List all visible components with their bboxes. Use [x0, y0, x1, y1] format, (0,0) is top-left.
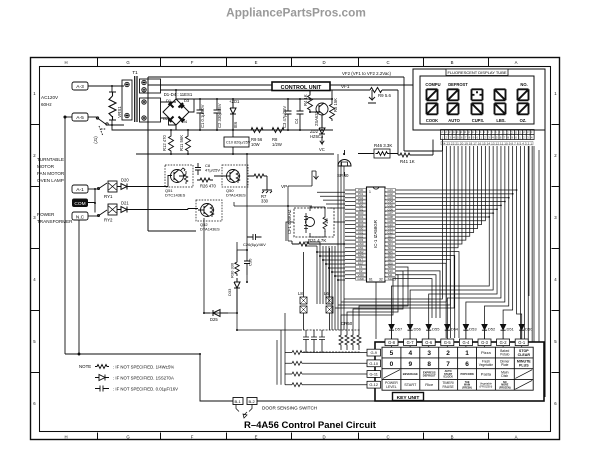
svg-text:AUTO: AUTO: [448, 118, 460, 123]
svg-text:3: 3: [427, 350, 431, 357]
svg-text:C30: C30: [248, 258, 253, 266]
capacitor C10 820u/25V box: [224, 137, 249, 147]
wire COM to relays: [88, 189, 95, 213]
capacitor C26 6u/46V: [247, 234, 262, 240]
transistor Q2 2SA633: [316, 103, 328, 115]
diodes D57-D50: [389, 325, 524, 330]
svg-text:LBS.: LBS.: [496, 118, 505, 123]
svg-text:G-8: G-8: [388, 340, 396, 345]
wire D20 to Q51: [133, 176, 172, 187]
svg-text:9: 9: [408, 361, 412, 368]
svg-text:10W: 10W: [251, 142, 260, 147]
svg-text:1/2W: 1/2W: [272, 142, 282, 147]
rail gnd y154: [136, 153, 334, 155]
control unit outline: [148, 77, 545, 397]
svg-text:FLUORESCENT DISPLAY TUBE: FLUORESCENT DISPLAY TUBE: [447, 70, 506, 75]
digit 3 upper: [472, 89, 483, 100]
note resistor symbol: [95, 365, 109, 369]
IC-1 left pin labels: [356, 189, 367, 281]
display tube outer box: [413, 69, 545, 130]
svg-text:RY1: RY1: [104, 194, 113, 199]
svg-text:R9 5.6: R9 5.6: [378, 93, 391, 98]
svg-text:C1 0.1µ/50V: C1 0.1µ/50V: [200, 104, 205, 128]
wire B-2 right: [257, 400, 375, 402]
svg-text:G-1: G-1: [518, 340, 526, 345]
svg-text:2: 2: [446, 350, 450, 357]
wire row G-10: [285, 362, 367, 364]
svg-text:TRANSFORMER: TRANSFORMER: [37, 219, 73, 224]
svg-text:RY2: RY2: [104, 218, 113, 223]
frame outer border: [31, 58, 560, 440]
ground arrow near VF: [368, 90, 376, 103]
resistor R9 5.6 in VF1 line: [370, 88, 382, 93]
VP arrow: [288, 171, 319, 186]
frame inner border: [40, 67, 551, 432]
wire VF1 line: [161, 90, 399, 155]
wires display right pins down to key unit: [520, 146, 532, 342]
IC-1 left pin stubs: [345, 190, 356, 279]
svg-text:1: 1: [369, 190, 371, 194]
CR50 capacitor bank: [303, 330, 325, 352]
capacitor C3 47u/25V: [285, 99, 292, 130]
choke L8: [300, 252, 307, 330]
wire bridge bottom: [175, 125, 177, 130]
svg-text:B: B: [451, 435, 454, 440]
svg-text:330: 330: [261, 199, 269, 204]
display pin connector rows: [441, 130, 535, 140]
wire row G-12: [285, 384, 367, 386]
wire sp40: [344, 150, 346, 176]
svg-text:R5 15K: R5 15K: [333, 98, 338, 112]
diode D25: [204, 310, 228, 317]
bus horizontals to IC left: [317, 252, 345, 280]
labels D57-D50: [395, 327, 533, 332]
svg-text:5: 5: [390, 350, 394, 357]
wires IC pins to key row connectors: [341, 267, 408, 330]
svg-text:6: 6: [554, 401, 557, 406]
svg-text:AC120V: AC120V: [41, 95, 59, 100]
key digits: [390, 350, 470, 368]
wire bridge + rail: [175, 90, 177, 99]
svg-text:1: 1: [465, 350, 469, 357]
svg-text:S12: S12: [388, 277, 394, 281]
svg-text:(J1): (J1): [93, 136, 98, 144]
svg-text:LEVEL: LEVEL: [386, 385, 397, 389]
svg-text:D54: D54: [451, 327, 459, 332]
svg-text:D51: D51: [507, 327, 515, 332]
svg-text:2: 2: [554, 153, 557, 158]
svg-text:D33: D33: [227, 288, 232, 296]
svg-text:G-11: G-11: [370, 372, 378, 377]
wires IC pins to key area: [376, 252, 459, 339]
svg-text:G: G: [126, 60, 130, 65]
capacitor C8 47u/25V: [195, 163, 201, 175]
svg-text:R30 330: R30 330: [230, 262, 235, 278]
relay RY2: [98, 210, 107, 216]
transistor Q52 DTA143ES: [196, 200, 222, 221]
resistor R26 470: [197, 178, 213, 182]
svg-text:FAN MOTOR: FAN MOTOR: [37, 171, 65, 176]
digit 2 upper: [448, 89, 459, 100]
svg-text:Pasta: Pasta: [481, 372, 492, 377]
svg-text:0: 0: [390, 361, 394, 368]
wire VP rail down: [234, 186, 312, 241]
svg-text:4: 4: [33, 277, 36, 282]
wire A-3 to T1 primary: [88, 85, 124, 87]
svg-text:R–4A56 Control Panel Circuit: R–4A56 Control Panel Circuit: [244, 420, 377, 431]
svg-text:R4 1K: R4 1K: [303, 94, 308, 106]
svg-text:VRS1: VRS1: [117, 106, 122, 118]
svg-text:H: H: [64, 60, 67, 65]
svg-text:Plate: Plate: [501, 363, 508, 367]
wire A-1 to RY1: [88, 188, 98, 190]
svg-text:E: E: [255, 435, 258, 440]
switch J1: [96, 117, 112, 125]
wires display anode pins to IC lower stair: [396, 146, 486, 248]
svg-text:DEFROST: DEFROST: [448, 82, 468, 87]
svg-text:2: 2: [33, 153, 36, 158]
transistor Q50 DTA143ES: [214, 165, 248, 187]
digit 4 lower: [495, 103, 506, 114]
digit 5 lower: [518, 103, 529, 114]
svg-text:IC-1 IZA58GR: IC-1 IZA58GR: [373, 220, 378, 248]
svg-text:D20: D20: [121, 178, 129, 183]
svg-text:(FROZEN): (FROZEN): [479, 384, 492, 388]
terminal A-1: [72, 185, 88, 193]
wire row G-11: [285, 373, 367, 375]
svg-text:POWER: POWER: [37, 212, 55, 217]
svg-text:D56: D56: [414, 327, 422, 332]
display tube title box: [446, 69, 508, 76]
digit 5 upper: [518, 89, 529, 100]
digit 3 lower: [472, 103, 483, 114]
svg-text:+ZD1: +ZD1: [229, 99, 240, 104]
svg-text:Dish: Dish: [501, 374, 508, 378]
wire to B-1: [200, 398, 233, 401]
svg-text:47µ/25V: 47µ/25V: [205, 168, 220, 173]
svg-text:SP.40: SP.40: [337, 173, 349, 178]
diode D33: [234, 278, 240, 313]
terminal A-3: [72, 82, 88, 90]
svg-text:PAUSE: PAUSE: [442, 385, 454, 389]
svg-text:CLEAR: CLEAR: [518, 353, 531, 357]
svg-text:3: 3: [554, 215, 557, 220]
svg-text:Potato: Potato: [500, 353, 509, 357]
svg-text:E: E: [255, 60, 258, 65]
svg-text:F F F P P P P P P P P P P P P: F F F P P P P P P P P P P P P P G G G G …: [442, 131, 533, 135]
svg-text:/CLOCK: /CLOCK: [443, 376, 453, 379]
transformer T1 secondary upper (filament winding): [140, 79, 161, 93]
svg-text:C2 330µ/35V: C2 330µ/35V: [217, 103, 222, 128]
door switch symbol: [236, 405, 252, 419]
svg-text:A-1: A-1: [76, 187, 84, 193]
resistor row G-12: [292, 383, 302, 387]
svg-text:GND: GND: [357, 277, 363, 281]
display pin numbers row: [441, 142, 533, 146]
svg-text:B-2: B-2: [249, 399, 256, 404]
wire VF2 top line: [148, 77, 443, 151]
transformer T1 core: [135, 76, 137, 122]
svg-text:D57: D57: [395, 327, 403, 332]
svg-text:AppliancePartsPros.com: AppliancePartsPros.com: [226, 6, 366, 20]
KEY UNIT label box: [393, 393, 424, 401]
relay RY1: [98, 183, 107, 189]
svg-text:CONTROL UNIT: CONTROL UNIT: [281, 85, 322, 91]
zener ZD2 HZ6C3: [319, 115, 325, 134]
CR50 resistor bank: [339, 330, 361, 350]
svg-text:VF2 (VF1 to VF2 2.2Vac): VF2 (VF1 to VF2 2.2Vac): [342, 71, 392, 76]
svg-text:COOK: COOK: [426, 118, 438, 123]
wires display grid pins to IC and key diodes: [392, 146, 522, 325]
resistor R9 56 10W: [247, 128, 267, 133]
resistor R5 15K (vertical): [330, 99, 335, 121]
svg-text:G-7: G-7: [407, 340, 415, 345]
svg-text:BEVERAGE: BEVERAGE: [403, 372, 418, 376]
svg-text:POPCORN: POPCORN: [461, 372, 474, 376]
resistor R7 330: [248, 174, 272, 193]
digit 2 lower: [448, 103, 459, 114]
svg-text:DEFROST: DEFROST: [423, 374, 436, 378]
wire left drop A-5 node down: [64, 117, 66, 354]
CR50 rails: [300, 330, 360, 352]
svg-text:A: A: [515, 435, 518, 440]
IC-1 body: [367, 187, 386, 282]
svg-text:TURNTABLE: TURNTABLE: [37, 157, 64, 162]
svg-text:COMPU: COMPU: [425, 82, 440, 87]
svg-text:G-9: G-9: [370, 350, 377, 355]
digit 1 lower: [427, 103, 438, 114]
svg-text:8: 8: [427, 361, 431, 368]
svg-text:G-12: G-12: [369, 382, 378, 387]
resistor R46 3.3K (boxed): [374, 149, 390, 158]
svg-text:1: 1: [554, 91, 557, 96]
svg-text:VP: VP: [281, 184, 287, 189]
svg-text:61: 61: [369, 278, 373, 282]
transistor Q51 DTC143ES: [165, 165, 193, 187]
transformer T1 secondary lower (main winding): [140, 98, 161, 122]
svg-text:5: 5: [33, 339, 36, 344]
diode D21: [117, 207, 133, 213]
svg-text:DOOR SENSING SWITCH: DOOR SENSING SWITCH: [262, 406, 317, 411]
svg-text:: IF NOT SPECIFIED. 1/4W±5%: : IF NOT SPECIFIED. 1/4W±5%: [113, 365, 174, 370]
svg-text:D52: D52: [488, 327, 496, 332]
svg-text:1M: 1M: [324, 218, 329, 224]
svg-text:DTC143ES: DTC143ES: [165, 193, 186, 198]
svg-text:(FRESH): (FRESH): [462, 386, 472, 389]
svg-text:3: 3: [33, 215, 36, 220]
resistor R11 56K (vertical): [186, 130, 191, 154]
svg-text:: IF NOT SPECIFIED. 0.01µF/16: : IF NOT SPECIFIED. 0.01µF/16V: [113, 387, 178, 392]
transformer T1 primary winding: [122, 80, 132, 120]
svg-text:Vegetable: Vegetable: [479, 363, 493, 367]
svg-text:B-1: B-1: [235, 399, 242, 404]
svg-text:6: 6: [33, 401, 36, 406]
frame tick separators top: [98, 58, 489, 67]
svg-text:D21: D21: [121, 201, 129, 206]
key cell labels: [385, 349, 531, 389]
CONTROL UNIT label box: [272, 82, 330, 91]
diode D20: [117, 184, 133, 190]
svg-text:D1: D1: [166, 98, 172, 103]
svg-text:D4: D4: [182, 119, 188, 124]
svg-text:C: C: [386, 60, 389, 65]
resistor R4 1K (vertical): [308, 90, 313, 112]
resistor R31 4.7K: [292, 241, 343, 246]
resistor R30 330 (vertical): [235, 250, 239, 276]
rectifier bridge D1-D4: [163, 99, 189, 125]
wire VRS1 leads: [112, 86, 124, 125]
wire Q2 rails: [310, 90, 332, 99]
svg-text:C10 820µ/25V: C10 820µ/25V: [226, 141, 251, 145]
svg-text:Rice: Rice: [425, 382, 434, 387]
rail mid y130: [112, 125, 333, 130]
resistor row G-11: [292, 372, 302, 376]
svg-text:7: 7: [446, 361, 450, 368]
svg-text:G-6: G-6: [425, 340, 433, 345]
svg-text:OZ.: OZ.: [520, 118, 527, 123]
svg-text:VC: VC: [319, 147, 325, 152]
svg-text:C26(6µ)/46V: C26(6µ)/46V: [243, 242, 266, 247]
svg-text:N.C: N.C: [76, 215, 85, 221]
svg-text:START: START: [404, 383, 417, 387]
svg-text:2SA633: 2SA633: [314, 110, 319, 126]
svg-text:A-5: A-5: [76, 115, 84, 121]
zener diode IE6: [230, 99, 236, 130]
seven-segment digits: [427, 89, 529, 114]
resistor row G-9: [292, 351, 302, 355]
svg-text:HZ6C3: HZ6C3: [310, 134, 324, 139]
svg-text:D53: D53: [469, 327, 477, 332]
svg-text:A-3: A-3: [76, 84, 84, 90]
svg-text:NO.: NO.: [520, 82, 527, 87]
CF1 box: [294, 208, 334, 237]
frame tick separators bottom: [98, 433, 489, 440]
svg-text:D3: D3: [184, 98, 190, 103]
svg-text:32: 32: [379, 278, 383, 282]
svg-text:IE6: IE6: [233, 121, 238, 128]
svg-text:COM: COM: [74, 201, 85, 207]
svg-text:L6: L6: [324, 291, 329, 296]
CF1 oscillator: [306, 218, 315, 227]
key unit enclosure: [375, 342, 544, 401]
svg-text:OVEN LAMP: OVEN LAMP: [37, 178, 64, 183]
terminal A-5: [72, 113, 88, 121]
svg-text:6: 6: [465, 361, 469, 368]
svg-text:CUPS.: CUPS.: [472, 118, 485, 123]
svg-text:G-3: G-3: [481, 340, 489, 345]
svg-text:G-2: G-2: [500, 340, 508, 345]
key row connectors G-9..G-12: [367, 349, 381, 388]
wire D21 right: [133, 209, 198, 210]
digit 4 upper: [495, 89, 506, 100]
wire row G-9: [285, 352, 367, 354]
digit 1 upper: [427, 89, 438, 100]
svg-text:R46 3.3K: R46 3.3K: [374, 143, 392, 148]
svg-text:C3 47µ/25V: C3 47µ/25V: [282, 106, 287, 128]
svg-text:D1-D4 : 11ES1: D1-D4 : 11ES1: [164, 92, 193, 97]
svg-text:D: D: [322, 60, 325, 65]
svg-text:G-4: G-4: [462, 340, 470, 345]
capacitor C2 330u/35V: [214, 99, 221, 130]
svg-text:B: B: [451, 60, 454, 65]
speaker SP40: [338, 160, 351, 167]
svg-text:C: C: [386, 435, 389, 440]
svg-text:: IF NOT SPECIFIED. 1SS270A: : IF NOT SPECIFIED. 1SS270A: [113, 376, 174, 381]
svg-text:D2: D2: [163, 116, 169, 121]
rail +B y99: [176, 99, 333, 112]
svg-text:4: 4: [554, 277, 557, 282]
terminal N.C: [72, 212, 88, 220]
svg-text:R12 470: R12 470: [162, 134, 167, 151]
svg-text:R11 56K: R11 56K: [179, 135, 184, 151]
svg-text:1 2 3 4 5 6 7 8 9 0 1 2 3 4 5: 1 2 3 4 5 6 7 8 9 0 1 2 3 4 5 6 7 8 9 0 …: [442, 136, 533, 140]
svg-text:F: F: [191, 60, 194, 65]
svg-text:G: G: [126, 435, 130, 440]
wire VC arrow: [320, 136, 324, 144]
svg-text:G-10: G-10: [369, 361, 378, 366]
wire A-5 to switch: [88, 116, 96, 118]
resistor R8 1/2W: [269, 128, 287, 133]
note capacitor symbol: [95, 386, 109, 392]
wire secondary to bridge: [161, 102, 177, 125]
svg-text:L8: L8: [298, 291, 303, 296]
svg-text:A: A: [515, 60, 518, 65]
display tube inner box: [420, 76, 534, 124]
svg-text:D: D: [322, 435, 325, 440]
svg-text:D50: D50: [525, 327, 533, 332]
svg-text:DTA143ES: DTA143ES: [200, 227, 220, 232]
svg-text:KEY UNIT: KEY UNIT: [397, 395, 420, 401]
resistor row G-10: [292, 361, 302, 365]
varistor VRS1: [109, 92, 116, 120]
svg-text:PLUS: PLUS: [519, 364, 529, 368]
svg-text:H: H: [64, 435, 67, 440]
svg-text:F: F: [191, 435, 194, 440]
svg-text:NOTE: NOTE: [79, 364, 91, 369]
svg-text:D55: D55: [432, 327, 440, 332]
capacitor C1 0.1u/50V: [197, 99, 204, 130]
connector B-2: [247, 398, 257, 405]
svg-text:60Hz: 60Hz: [41, 102, 52, 107]
svg-text:R26 470: R26 470: [200, 184, 217, 189]
svg-text:24 23 22 21 20 19 18 17 16 15: 24 23 22 21 20 19 18 17 16 15 14 13 12 1…: [442, 142, 532, 146]
frame tick separators right: [552, 125, 560, 373]
wires display left pins to bus corridor: [335, 146, 454, 308]
svg-text:4: 4: [408, 350, 412, 357]
connector B-1: [233, 398, 243, 405]
bus corridor verticals: [305, 154, 344, 330]
capacitor C30: [244, 250, 250, 275]
svg-text:MOTOR: MOTOR: [37, 164, 55, 169]
IC-1 right pin labels: [385, 189, 396, 281]
wire C30/R30 top: [237, 154, 247, 282]
svg-text:DTA143ES: DTA143ES: [226, 193, 246, 198]
wire N.C to RY2: [88, 215, 98, 217]
svg-text:(FROZEN): (FROZEN): [499, 386, 511, 389]
wire CF1 to IC: [286, 222, 345, 241]
frame tick separators left: [31, 125, 40, 373]
wire Q52 down: [204, 218, 237, 313]
svg-text:Pizza: Pizza: [481, 350, 492, 355]
svg-text:CR50: CR50: [341, 321, 353, 326]
terminal COM (filled): [72, 199, 88, 208]
svg-text:D25: D25: [210, 317, 218, 322]
svg-text:R41 1K: R41 1K: [400, 159, 415, 164]
note diode symbol: [95, 375, 109, 381]
CF1 resistor 1M: [323, 214, 327, 232]
node A-5 left: [64, 116, 66, 118]
choke L6: [326, 248, 333, 330]
